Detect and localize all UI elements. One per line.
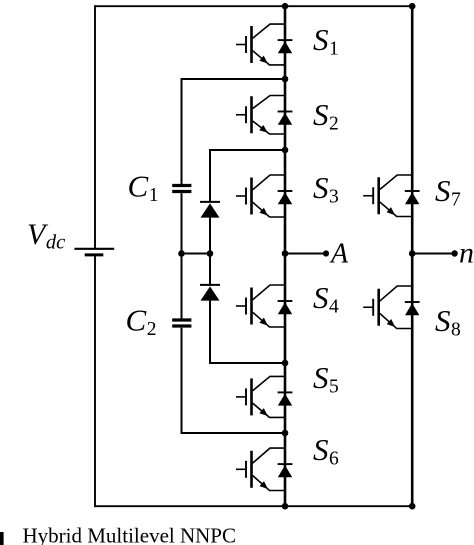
svg-text:S8: S8 xyxy=(435,303,461,341)
junction dot inner nest neutral xyxy=(207,250,214,257)
node n terminal dot xyxy=(451,250,457,256)
wire right leg xyxy=(411,6,414,506)
svg-text:S6: S6 xyxy=(313,432,339,470)
junction dot S5-S6 xyxy=(282,430,289,437)
transistor S5 xyxy=(236,376,285,417)
junction dot bottom rail / right leg xyxy=(409,503,416,510)
battery Vdc xyxy=(74,249,114,255)
svg-text:S7: S7 xyxy=(435,173,461,211)
antiparallel diode of S3 xyxy=(278,191,293,204)
transistor S4 xyxy=(236,285,285,327)
caption fragment xyxy=(0,532,4,545)
junction dot bus at node A xyxy=(282,250,289,257)
clamping diode D2 xyxy=(200,285,220,301)
svg-text:S3: S3 xyxy=(313,170,339,208)
transistor S3 xyxy=(236,175,285,217)
antiparallel diode of S2 xyxy=(278,112,293,125)
wire left rail upper xyxy=(94,5,96,248)
junction dot top rail / bus xyxy=(282,3,289,10)
wire inner nest between neutral and D2 xyxy=(209,254,211,287)
svg-text:C2: C2 xyxy=(126,303,157,341)
svg-text:S2: S2 xyxy=(313,97,339,135)
node A wire stub xyxy=(285,253,326,255)
wire top rail xyxy=(95,5,412,7)
node A terminal dot xyxy=(323,250,329,256)
junction dot top rail / right leg xyxy=(409,3,416,10)
wire inner nest upper segment xyxy=(209,149,211,202)
antiparallel diode of S7 xyxy=(405,191,420,204)
antiparallel diode of S1 xyxy=(278,40,293,53)
junction dot outer nest neutral xyxy=(178,250,185,257)
wire outer nest between neutral and C2 xyxy=(181,254,183,321)
node n wire stub xyxy=(412,253,454,255)
svg-text:C1: C1 xyxy=(128,169,159,207)
junction dot S2-S3 xyxy=(282,147,289,154)
wire outer nest upper segment xyxy=(181,78,183,184)
capacitor C1 xyxy=(172,186,191,192)
svg-text:Hybrid Multilevel NNPC: Hybrid Multilevel NNPC xyxy=(23,523,237,545)
junction dot bottom rail / bus xyxy=(282,503,289,510)
svg-text:S1: S1 xyxy=(313,22,339,60)
junction dot right leg at node n xyxy=(409,250,416,257)
svg-text:S4: S4 xyxy=(313,280,339,318)
wire outer nest lower segment xyxy=(181,328,183,434)
wire neutral link between nests xyxy=(182,253,211,255)
transistor S1 xyxy=(236,24,285,65)
wire S4-S5 junction to inner nest xyxy=(210,362,285,364)
wire S2-S3 junction to inner nest xyxy=(210,149,285,151)
transistor S7 xyxy=(363,175,412,217)
junction dot S1-S2 xyxy=(282,76,289,83)
svg-text:S5: S5 xyxy=(313,360,339,398)
antiparallel diode of S6 xyxy=(278,464,293,477)
antiparallel diode of S4 xyxy=(278,301,293,314)
wire outer nest between C1 and neutral xyxy=(181,193,183,253)
svg-text:Vdc: Vdc xyxy=(27,218,65,254)
capacitor C2 xyxy=(172,320,191,326)
svg-text:A: A xyxy=(329,238,349,269)
antiparallel diode of S5 xyxy=(278,392,293,405)
wire left rail lower xyxy=(94,256,96,508)
wire phase-leg bus xyxy=(284,6,287,506)
wire inner nest lower segment xyxy=(209,301,211,364)
transistor S8 xyxy=(363,286,412,329)
antiparallel diode of S8 xyxy=(405,302,420,315)
junction dot S4-S5 xyxy=(282,360,289,367)
wire bottom rail xyxy=(95,505,412,507)
transistor S2 xyxy=(236,96,285,135)
wire S1-S2 junction to outer nest xyxy=(182,78,286,80)
svg-text:n: n xyxy=(459,237,474,270)
wire S5-S6 junction to outer nest xyxy=(182,432,286,434)
transistor S6 xyxy=(236,448,285,490)
clamping diode D1 xyxy=(200,202,220,218)
wire inner nest between D1 and neutral xyxy=(209,218,211,254)
